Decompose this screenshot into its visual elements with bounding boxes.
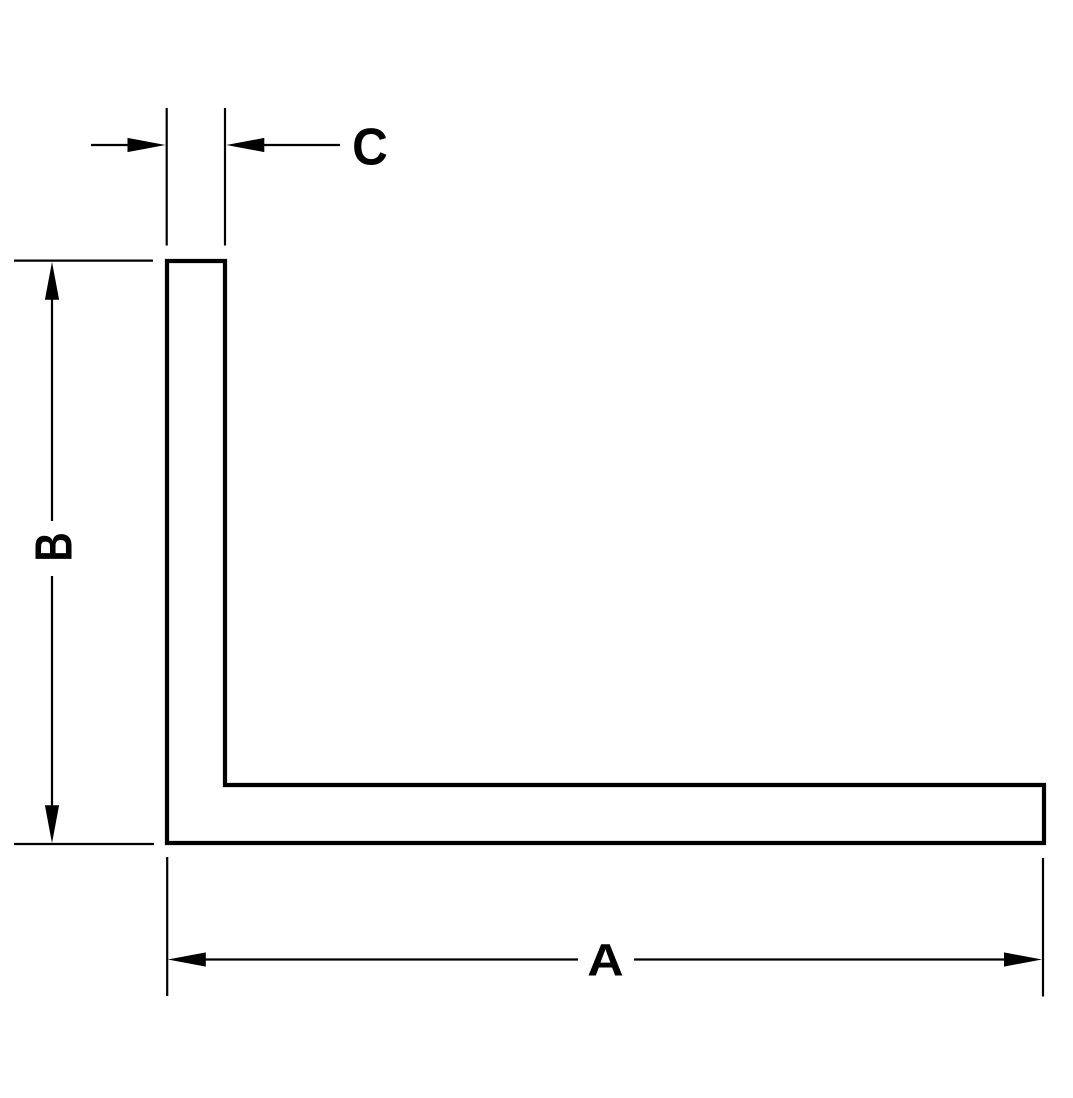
dimension C: right extension line: [224, 108, 226, 246]
dimension C: left arrowhead: [128, 138, 166, 152]
dimension C: left arrow leader line: [91, 144, 132, 146]
dimension B: lower dimension line: [51, 576, 53, 808]
dimension B: bottom extension line: [14, 843, 154, 845]
dimension A: right extension line: [1042, 858, 1044, 997]
dimension A: left extension line: [166, 857, 168, 996]
dimension A: right arrowhead: [1004, 952, 1042, 966]
dimension C: right arrowhead: [226, 138, 264, 152]
svg-text:A: A: [587, 936, 623, 986]
dimension B: upper dimension line: [51, 296, 53, 521]
dimension C: left extension line: [166, 108, 168, 246]
dimension B: top extension line: [14, 260, 153, 262]
dimension B: up arrowhead: [45, 262, 59, 300]
dimension A: left arrowhead: [168, 952, 206, 966]
dimension B: down arrowhead: [45, 805, 59, 843]
svg-text:B: B: [25, 532, 83, 561]
dimension A: left dimension line: [203, 958, 578, 960]
L-angle profile outline: [167, 261, 1044, 843]
svg-text:C: C: [352, 117, 388, 175]
dimension C: right arrow leader line: [260, 144, 340, 146]
dimension A: right dimension line: [634, 958, 1007, 960]
